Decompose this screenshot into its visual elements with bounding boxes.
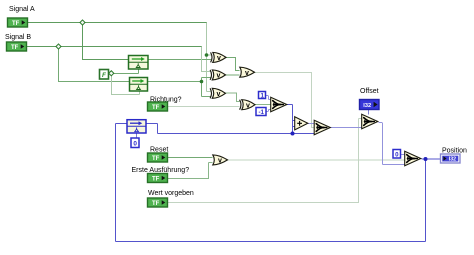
terminal: Wert vorgeben (TF control) [148,198,168,207]
wire: F constant to FBN1 initializer [109,69,139,74]
svg-text:Signal A: Signal A [9,6,35,13]
node Select3 (Wert vorgeben: Offset preset) [362,114,378,129]
terminal: Richtung? (TF control) [148,102,168,111]
svg-text:Wert vorgeben: Wert vorgeben [148,190,194,197]
wire: FBN2 output to junction and XOR2/XOR3 lower inputs [148,78,211,97]
gate XOR2 (B xor B_prev) [210,70,225,80]
svg-text:v: v [217,91,221,98]
constant 1 [259,92,266,100]
wire: XOR3 output to XOR4 upper input [226,93,240,102]
wire: Reset terminal to OR2 upper input [168,157,213,159]
wire: Wert vorgeben terminal right and up to Select3 s input [168,119,362,203]
feedback node FBN3 (position register, blue) [127,120,146,133]
terminal: Signal A (TF control) [8,18,28,27]
terminal: Offset (I32 control) [360,100,380,110]
node: diamond junction at F constant [109,71,114,76]
svg-text:Erste Ausführung?: Erste Ausführung? [132,167,190,174]
wire: FBN3 initializer stub [136,133,138,138]
wire: Signal A main horizontal [27,23,405,203]
constant -1 [256,108,266,116]
constant 0 (Select4 t input) [393,150,401,159]
gate OR1 (edge detect combine) [240,67,255,77]
wire: OR2 output to Select4 s input [228,159,405,161]
wire: Signal B main horizontal [27,46,203,48]
terminal: Reset (TF control) [148,153,168,162]
wire: Richtung? terminal to XOR4 lower input [168,106,240,108]
svg-text:v: v [217,73,221,80]
node Select1 (1 / -1 by direction) [271,97,287,112]
node Select2 (update on edge) [314,120,330,135]
svg-text:v: v [218,158,222,165]
wire: Select4 output to Position terminal [422,158,441,160]
gate XOR4 (invert by Richtung?) [240,100,255,110]
gate OR2 (Reset or Erste Ausführung) [213,155,228,165]
wire: Signal A branch down to feedback node FBN1 [83,23,129,60]
svg-text:-1: -1 [258,109,264,116]
wire: Add1 output to Select2 t input [308,123,314,125]
gate XOR1 (A xor A_prev) [211,52,226,62]
wire: Signal A vertical drop to XOR column (v2) [207,23,212,92]
svg-text:0: 0 [395,151,399,158]
node: junction on Signal A wire [80,20,85,25]
svg-text:v: v [246,102,250,109]
wire: Erste Ausfuehrung terminal to OR2 lower input [168,163,213,179]
wire: feedback loop from output junction down, left and up into FBN3 [116,124,426,242]
svg-text:v: v [245,70,249,77]
svg-text:I32: I32 [363,103,371,109]
svg-text:v: v [217,55,221,62]
node: blue junction at Position output [424,157,428,161]
wire: Select2 output to Select3 f input [331,127,362,129]
constant F (false boolean) [100,70,109,80]
wire: Offset terminal drop into Select3 t input [368,110,370,115]
wire: F constant branch down to FBN2 initializer [112,76,140,95]
wire: XOR4 output to Select1 s input [255,104,271,106]
wire: OR1 output down to Select2 s input [255,73,315,128]
terminal: Signal B (TF control) [7,42,27,51]
node: junction on Signal A vertical at XOR1 input [205,53,209,57]
wire: FBN3 output to long feedback row into Select2 f input [146,124,314,134]
constant 0 (FBN3 initializer) [131,138,139,148]
node Add1 (increment position) [295,117,308,130]
svg-text:0: 0 [133,140,137,147]
wire: constant 1 to Select1 t input [266,96,271,100]
terminal: Position (I32 indicator) [441,154,461,163]
node Select4 (Reset to 0) [405,151,421,166]
gate XOR3 (direction xor) [210,88,225,98]
wire: XOR1 output to OR1 upper input [226,58,240,71]
node: junction on FBN2 output net [200,80,204,84]
node: blue junction feeding Add1 y input [291,132,295,136]
wire: Select1 output down to Add1 inputs [287,105,295,134]
feedback node FBN2 (Signal B previous) [130,78,148,92]
wire: constant -1 to Select1 f input [266,110,271,112]
wire: constant 0 to Select4 t input [401,154,405,156]
wire: Signal B branch down to feedback node FBN2 [59,47,130,82]
wire: FBN1 output to XOR1 lower input [148,59,211,61]
svg-text:1: 1 [260,92,264,99]
wire: Signal B vertical drop to XOR2 upper input (v1) [202,47,211,72]
wire: XOR2 output to OR1 lower input [226,74,240,76]
feedback node FBN1 (Signal A previous) [129,56,149,70]
terminal: Erste Ausführung? (TF control) [148,174,168,183]
svg-text:I32: I32 [449,157,456,163]
node: junction on Signal B wire [56,44,61,49]
svg-text:Offset: Offset [360,88,379,95]
svg-text:Signal B: Signal B [5,34,31,41]
wire: Select3 output right and down to Select4 f input [379,123,405,165]
